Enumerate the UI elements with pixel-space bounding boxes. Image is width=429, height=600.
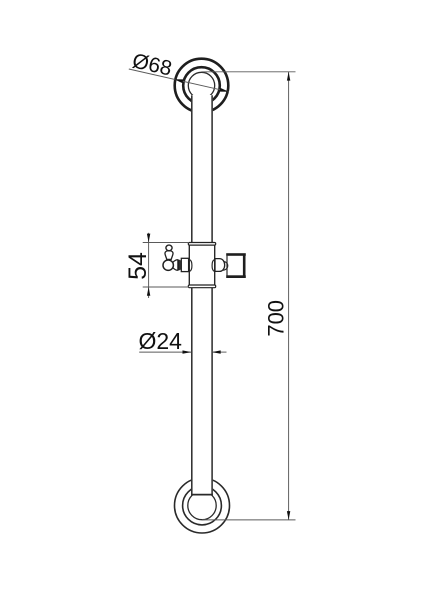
slider top rim xyxy=(188,243,215,246)
dim Ø68 leader line xyxy=(129,69,229,92)
holder cup bottom bar xyxy=(226,275,246,278)
dim 54 top extension line xyxy=(143,242,189,244)
top flange inner circle xyxy=(188,72,214,98)
dim Ø68 arrow left xyxy=(174,79,183,83)
dim 54 arrow bottom xyxy=(147,287,150,296)
handle ball xyxy=(163,260,173,270)
dim Ø24 arrow left xyxy=(183,350,192,353)
bottom flange outer circle xyxy=(175,478,230,533)
slider left socket arc xyxy=(190,260,192,271)
svg-text:54: 54 xyxy=(124,252,152,280)
svg-text:Ø24: Ø24 xyxy=(139,328,183,354)
slider bottom rim xyxy=(188,285,215,288)
dim Ø24 left line xyxy=(139,351,191,353)
slide bar bottom end cap xyxy=(191,494,213,496)
handle ring band xyxy=(178,260,180,270)
slider body fill xyxy=(189,244,214,287)
dim 54 bottom extension line xyxy=(143,286,189,288)
handle top knob xyxy=(166,245,172,251)
slider body left wall xyxy=(188,245,190,285)
holder ball seat arc xyxy=(223,261,228,270)
slider body right wall xyxy=(214,245,216,285)
handle ring line xyxy=(179,260,181,270)
holder cup right wall xyxy=(243,256,246,276)
holder cup left wall xyxy=(226,256,228,276)
top flange outer circle xyxy=(175,59,229,113)
dim Ø24 arrow right xyxy=(212,350,221,353)
bottom flange inner circle xyxy=(188,491,216,519)
svg-text:700: 700 xyxy=(264,300,289,337)
slider right socket arc xyxy=(212,260,214,271)
dim 700 arrow down xyxy=(287,511,290,520)
dim 700 arrow up xyxy=(287,72,290,81)
slide bar tube fill xyxy=(191,95,213,495)
bottom flange middle circle xyxy=(183,486,222,525)
dim 54 arrow top xyxy=(147,234,150,243)
handle horn xyxy=(173,260,178,270)
slide bar left wall xyxy=(191,95,193,494)
slide bar right wall xyxy=(211,95,213,494)
dim Ø68 arrow right xyxy=(220,88,229,92)
handle port block xyxy=(181,258,188,271)
top flange middle circle xyxy=(183,67,220,104)
holder cup top bar xyxy=(226,253,246,256)
dim 54 line xyxy=(148,233,150,298)
dim 700 top extension line xyxy=(202,71,296,73)
dim 700 line xyxy=(288,72,290,520)
holder knuckle xyxy=(215,259,225,272)
dim 700 bottom extension line xyxy=(202,519,296,521)
handle stem vase xyxy=(165,251,173,260)
dim Ø24 right line xyxy=(212,351,227,353)
